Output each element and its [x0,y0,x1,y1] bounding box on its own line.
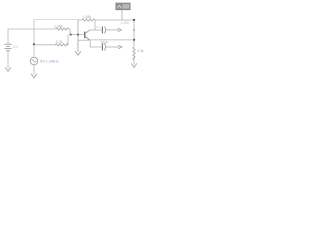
resistor R2 [55,44,68,46]
wire C2 right with output arrow [106,46,119,48]
resistor R4 vertical on right rail [133,47,135,60]
capacitor C2 [102,44,105,51]
resistor R3 on top rail [82,19,95,21]
wire collector lead right [90,29,102,31]
wire R4 bottom lead [133,58,135,65]
svg-text:3.3k: 3.3k [137,49,144,53]
wire C1 right with output arrow [106,29,119,31]
AC voltage source V2 [30,57,38,65]
capacitor C1 [102,26,105,33]
battery V1 [5,44,12,51]
node junction dot at 70,34 [70,34,72,36]
node corner dot at 134,20 [133,19,135,21]
ground arrow under right rail [131,63,137,67]
wire AC source top lead up to rail corner [33,20,35,58]
svg-text:10u: 10u [96,25,101,29]
svg-text:1.23V: 1.23V [121,21,130,25]
wire collector tie up to rail at x=95 [94,20,96,30]
meter box component top right [116,3,130,10]
wire from meter box down to rail [121,10,123,20]
transistor Q1 [85,30,90,40]
node junction dot base node 78,34 [77,34,79,36]
wire R1 right lead, corner down to base line [69,29,85,35]
wire from node 34,44 right to resistor R2 [34,44,56,46]
svg-text:1.34k: 1.34k [83,15,92,19]
node faint dot at 134,30 [133,29,135,31]
wire emitter branch down then right to C2 [90,40,102,47]
wire emitter lead right long to rail node [78,39,90,41]
node junction dot at 134,39.5 [133,39,135,41]
ground arrow under battery [5,67,11,71]
wire battery bottom lead down [7,51,9,69]
right rail wire vertical [133,20,135,47]
top rail wire R3 to right corner [95,19,134,21]
wire R2 right lead corner up to base line [66,35,68,45]
svg-text:1.34k: 1.34k [54,24,63,28]
top rail wire x=78 to resistor R3 [78,19,82,21]
svg-text:5m 1.34kHz: 5m 1.34kHz [40,60,59,64]
ground arrow at x=78 [75,40,81,55]
wire vertical x=78 from top rail down through base node to ground [77,20,79,41]
wire AC source bottom lead [33,65,35,75]
svg-text:12V: 12V [13,45,20,49]
svg-text:2.2k: 2.2k [56,40,63,44]
svg-text:10uF: 10uF [101,41,109,45]
resistor R1 [56,28,69,30]
node junction dot at 34,44 [33,43,35,45]
wire battery top lead up and right to resistor R1 [8,29,56,44]
top rail wire from AC column to x=78 (very light) [34,19,78,21]
ground arrow under AC source [31,74,37,78]
